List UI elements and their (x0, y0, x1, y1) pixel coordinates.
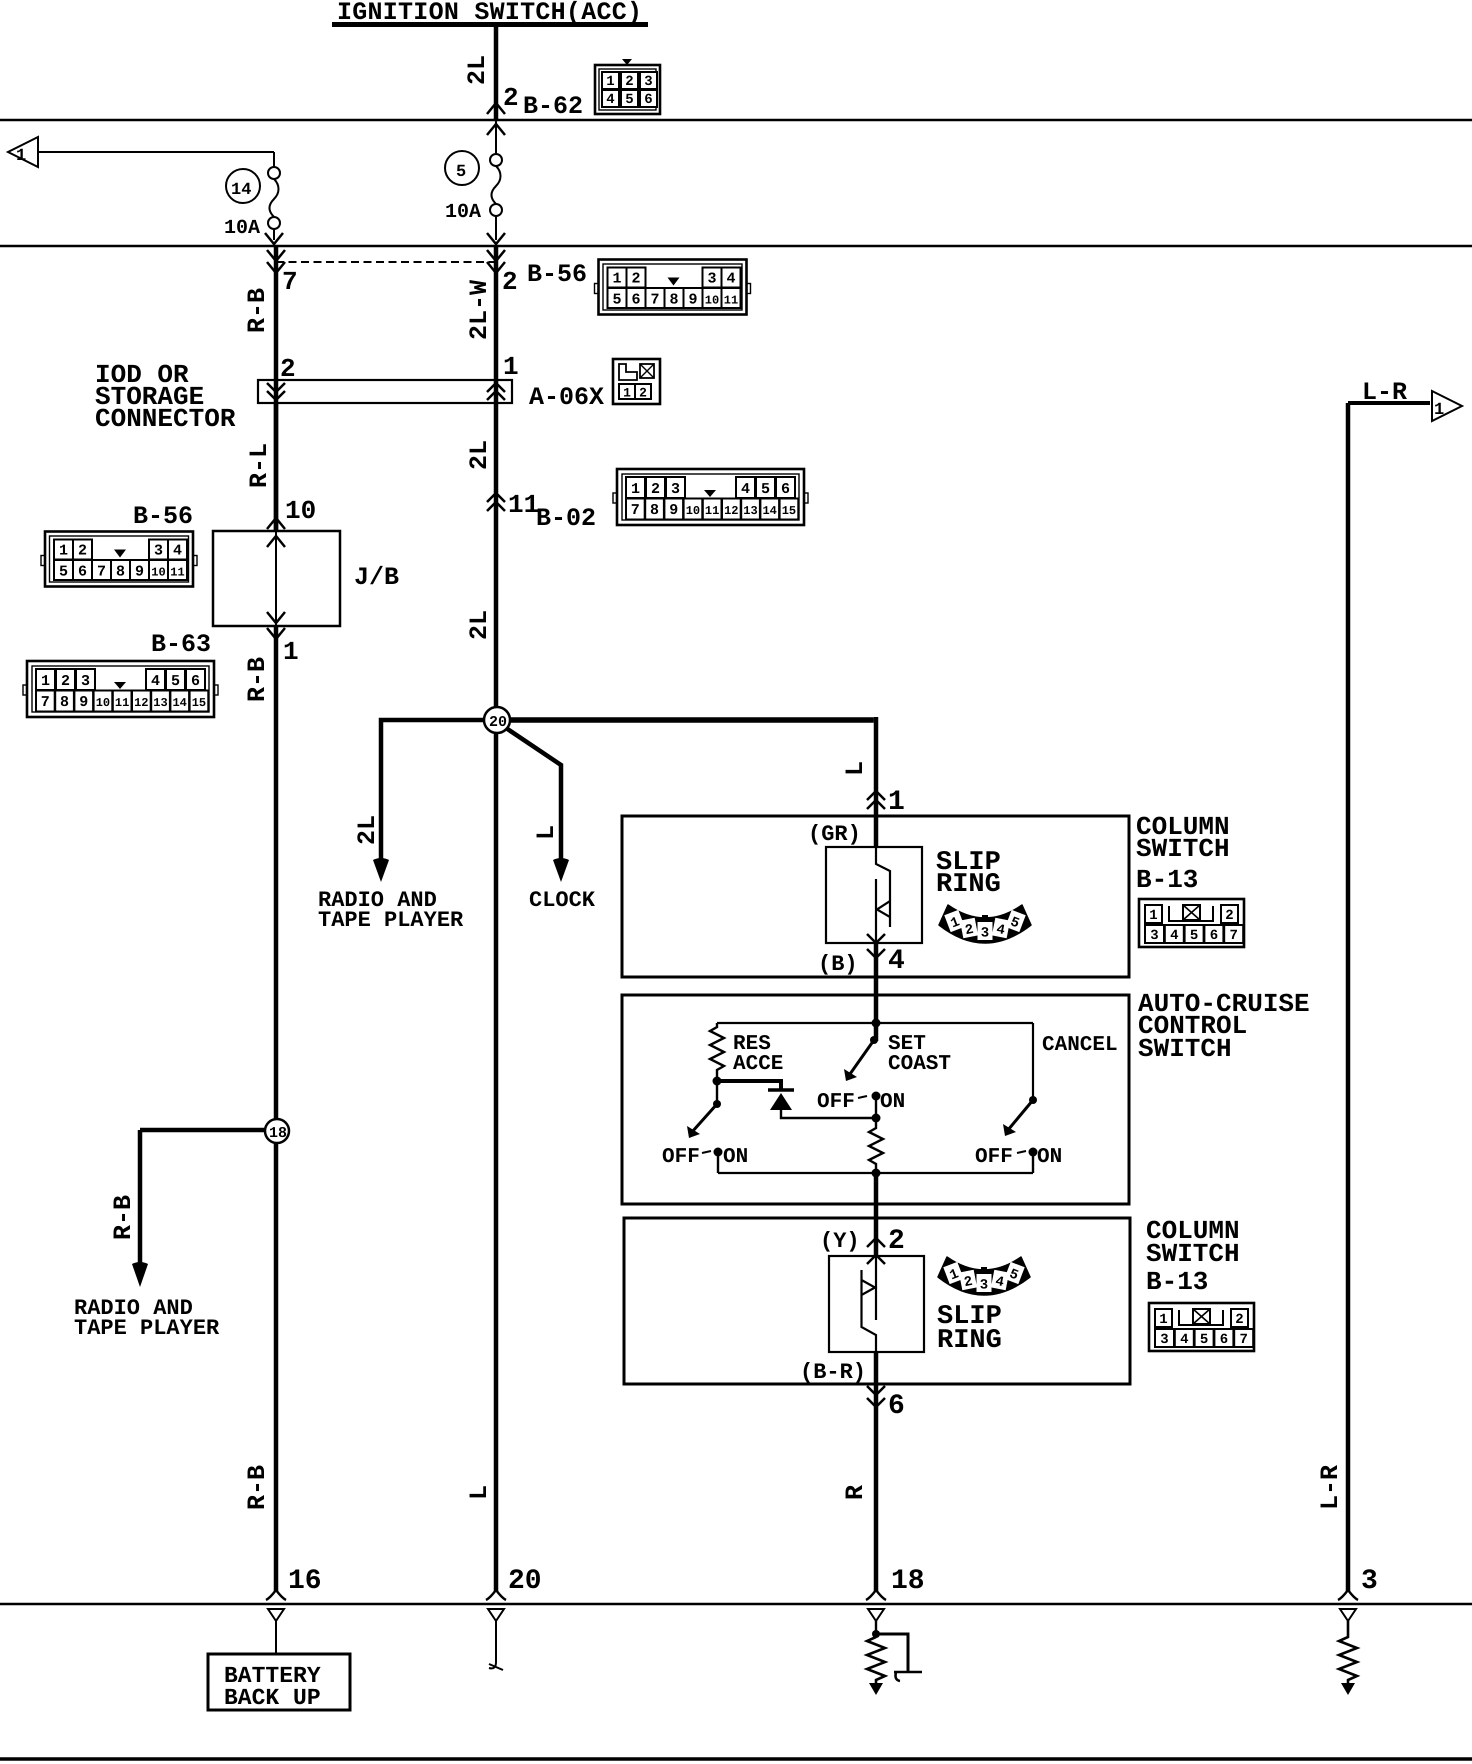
arrow double chevron down inside IOD left (267, 383, 285, 400)
svg-text:(B): (B) (818, 952, 858, 977)
svg-text:OFF: OFF (817, 1091, 855, 1114)
svg-text:6: 6 (888, 1391, 905, 1422)
svg-text:1: 1 (16, 147, 26, 166)
wire center ON to mid junction (875, 1096, 877, 1118)
svg-text:TAPE PLAYER: TAPE PLAYER (74, 1316, 220, 1341)
junction circle 18 (265, 1119, 289, 1143)
arrow solid to clock (553, 858, 569, 882)
svg-text:ACCE: ACCE (733, 1053, 783, 1076)
auto-cruise control switch box (622, 995, 1129, 1204)
rail top horizontal bus line 1 (0, 119, 1472, 122)
crow foot terminal far right bus (1338, 1590, 1358, 1600)
svg-text:R-B: R-B (243, 1465, 272, 1510)
svg-text:ON: ON (880, 1091, 905, 1114)
switch RES arm (713, 1100, 721, 1108)
connector icon B-13 upper (1139, 899, 1244, 947)
junction block J/B box (213, 531, 340, 626)
wire right bus vertical down (874, 717, 879, 1591)
junction circle 20 (484, 707, 510, 733)
wire horizontal from junction 20 to right bus (497, 717, 874, 723)
battery back up box (208, 1654, 350, 1710)
switch CANCEL arm blade (1008, 1100, 1033, 1130)
arrow double chevron down below lower box (867, 1386, 885, 1407)
arrow solid to radio and tape player (373, 858, 389, 882)
svg-text:4: 4 (606, 92, 614, 108)
arrow chevron down into line2 center (487, 233, 505, 244)
svg-text:1: 1 (1434, 401, 1444, 420)
svg-text:2: 2 (503, 83, 519, 113)
arrow double chevron down at slip ring bottom (867, 934, 885, 958)
wire through J/B thin (275, 531, 277, 626)
arrow chevron up above J/B (267, 518, 285, 529)
wire stub down to radio left bottom (138, 1130, 143, 1279)
svg-text:OFF: OFF (662, 1146, 700, 1169)
svg-text:11: 11 (508, 490, 539, 520)
svg-text:(GR): (GR) (808, 822, 861, 847)
svg-text:16: 16 (288, 1566, 322, 1597)
arrow solid to radio and tape player bottom (132, 1262, 148, 1287)
svg-text:14: 14 (231, 181, 251, 200)
svg-text:R-B: R-B (243, 657, 272, 702)
arrow chevron down below J/B bottom (267, 628, 285, 639)
crow foot terminal left bus (266, 1590, 286, 1600)
connector icon slip ring fan lower (938, 1257, 1030, 1295)
node ON contact left (714, 1148, 723, 1157)
resistor center (869, 1118, 883, 1173)
svg-text:3: 3 (1361, 1566, 1378, 1597)
connector icon B-63 (23, 661, 218, 717)
slip ring upper inner box (826, 847, 922, 943)
switch SET/COAST arm (870, 1036, 878, 1044)
svg-text:R-B: R-B (243, 288, 272, 333)
resistor far right bus bottom (1339, 1621, 1357, 1685)
svg-text:2: 2 (639, 386, 647, 401)
svg-text:4: 4 (888, 946, 905, 977)
svg-text:1: 1 (283, 637, 299, 667)
svg-text:ON: ON (1037, 1146, 1062, 1169)
female terminal triangle right (868, 1609, 884, 1621)
svg-text:COAST: COAST (888, 1053, 951, 1076)
svg-text:2L: 2L (463, 55, 492, 85)
wire diagonal stub to clock (503, 726, 561, 872)
arrow chevron up above line1 (487, 103, 505, 114)
svg-text:RING: RING (937, 1326, 1002, 1356)
female terminal triangle left (268, 1609, 284, 1621)
arrow double chevron down below line2 left (267, 250, 285, 273)
IOD or storage connector rectangle (258, 380, 512, 403)
female terminal triangle far right (1340, 1609, 1356, 1621)
svg-text:5: 5 (625, 92, 633, 108)
wire to RES switch pivot (716, 1081, 718, 1104)
connector icon slip ring fan upper (939, 905, 1031, 943)
svg-text:10: 10 (285, 496, 316, 526)
arrow chevron up below J/B top (267, 536, 285, 547)
svg-text:2L: 2L (353, 815, 382, 845)
wire hook tick center terminal (489, 1664, 503, 1670)
resistor RES/ACCE (710, 1023, 724, 1081)
arrow double chevron up crossing slip box top (867, 1238, 885, 1264)
wire left bus R-B vertical from line2 down (274, 246, 279, 531)
fuse F5 element (490, 120, 502, 240)
svg-text:1: 1 (606, 74, 614, 90)
switch RES arm arrowhead (687, 1126, 700, 1138)
connector icon B-56 top (595, 260, 751, 315)
arrow double chevron down below line2 center (487, 250, 505, 273)
svg-text:18: 18 (269, 1125, 287, 1142)
wire center bus L from junction down to bottom (494, 733, 499, 1591)
svg-text:SWITCH: SWITCH (1138, 1034, 1232, 1064)
diode (cathode bar and triangle) (768, 1088, 794, 1092)
connector icon B-13 lower (1149, 1303, 1254, 1351)
wire stub to radio left (381, 720, 497, 872)
svg-text:B-56: B-56 (133, 502, 193, 531)
svg-text:2L-W: 2L-W (465, 280, 494, 340)
dash between OFF and ON left (702, 1151, 711, 1153)
title underline (332, 22, 648, 27)
svg-text:18: 18 (891, 1566, 925, 1597)
arrow solid down far right bus (1341, 1683, 1355, 1695)
slip ring lower inner box (829, 1256, 924, 1352)
arrow chevron down into line2 left (265, 233, 283, 244)
column switch B-13 lower box (624, 1218, 1130, 1384)
fuse 14 circle label (226, 169, 260, 203)
arrow double chevron up at pin 11 (487, 493, 505, 511)
resistor right bus bottom (867, 1637, 885, 1685)
svg-text:RING: RING (936, 870, 1001, 900)
svg-text:B-13: B-13 (1136, 865, 1198, 895)
junction dot left (713, 1077, 722, 1086)
arrow solid down right bus (869, 1683, 883, 1695)
wire left bus R-B from J/B to bottom (274, 626, 279, 1591)
wire and junction to ground branch (875, 1621, 877, 1637)
svg-text:7: 7 (282, 267, 298, 297)
svg-text:B-63: B-63 (151, 630, 211, 659)
svg-text:ON: ON (723, 1146, 748, 1169)
dash between OFF and ON right (1017, 1151, 1026, 1153)
slip ring lower symbol (862, 1256, 877, 1352)
svg-text:10A: 10A (224, 217, 260, 240)
junction dot bottom center (872, 1169, 881, 1178)
auto-cruise inner top rail (717, 1022, 1033, 1024)
svg-text:B-56: B-56 (527, 260, 587, 289)
svg-text:B-02: B-02 (536, 504, 596, 533)
connector icon B-02 (613, 469, 808, 525)
node junction to ground branch (872, 1630, 880, 1638)
connector icon A-06X (613, 359, 660, 404)
junction dot center mid (872, 1114, 881, 1123)
svg-text:2: 2 (625, 74, 633, 90)
crow foot terminal right bus (866, 1590, 886, 1600)
wire far right bus L-R vertical (1346, 403, 1351, 1591)
svg-text:CANCEL: CANCEL (1042, 1034, 1118, 1057)
svg-text:J/B: J/B (354, 563, 399, 592)
diode D1 anode triangle (770, 1093, 792, 1110)
svg-text:SWITCH: SWITCH (1136, 834, 1230, 864)
svg-text:CONNECTOR: CONNECTOR (95, 404, 236, 434)
node ON contact center (872, 1092, 881, 1101)
wire 2L stub from ignition switch down to line 1 (494, 27, 499, 120)
ground symbol (894, 1672, 922, 1681)
svg-text:OFF: OFF (975, 1146, 1013, 1169)
svg-text:L-R: L-R (1316, 1465, 1345, 1510)
crow foot terminal center bus (486, 1590, 506, 1600)
svg-text:2: 2 (502, 267, 518, 297)
switch SET arm arrowhead (844, 1069, 857, 1081)
wire to battery back up (275, 1621, 277, 1654)
connector icon B-62 (595, 59, 660, 114)
svg-text:CLOCK: CLOCK (529, 888, 596, 913)
svg-text:B-13: B-13 (1146, 1267, 1208, 1297)
svg-text:2: 2 (888, 1226, 905, 1257)
svg-text:1: 1 (888, 787, 905, 818)
svg-text:R-L: R-L (245, 443, 274, 488)
wire center bus 2L-W vertical from line2 down (494, 246, 499, 720)
svg-text:6: 6 (644, 92, 652, 108)
arrow chevron up below line1 (487, 124, 505, 135)
rail horizontal bus line 2 (0, 245, 1472, 248)
auto-cruise inner bottom rail (718, 1172, 1033, 1174)
svg-text:2L: 2L (465, 440, 494, 470)
svg-text:(Y): (Y) (820, 1229, 860, 1254)
svg-text:1: 1 (623, 386, 631, 401)
connector icon B-56 left (41, 532, 197, 587)
arrow chevron down above J/B bottom (267, 612, 285, 623)
node A left arrow to sheet 1 (8, 137, 274, 167)
wire stub with hook center (489, 1621, 496, 1668)
wire ON right to bottom rail (1032, 1152, 1034, 1173)
svg-text:20: 20 (508, 1566, 542, 1597)
female terminal triangle center (488, 1609, 504, 1621)
switch SET arm blade (850, 1040, 874, 1074)
svg-text:L: L (841, 761, 870, 776)
wire thick to diode (717, 1081, 781, 1089)
arrow double chevron up at pin 1 column switch (867, 791, 885, 809)
ground branch wire (876, 1634, 908, 1672)
svg-text:20: 20 (489, 714, 507, 731)
node L-R right arrow to sheet 1 (1348, 391, 1462, 421)
slip ring upper symbol (876, 847, 890, 943)
svg-text:R-B: R-B (109, 1195, 138, 1240)
wire dashed tie line between buses (276, 261, 496, 263)
dash between OFF and ON center (858, 1096, 867, 1098)
switch CANCEL arm (1032, 1023, 1034, 1100)
svg-text:R: R (841, 1485, 870, 1500)
svg-text:L: L (532, 825, 561, 840)
svg-text:SWITCH: SWITCH (1146, 1239, 1240, 1269)
svg-text:2L: 2L (465, 610, 494, 640)
wire left bus below IOD (274, 403, 279, 531)
arrow double chevron up inside IOD right (487, 383, 505, 400)
wire ON left to bottom rail (717, 1152, 719, 1173)
svg-text:10A: 10A (445, 201, 481, 224)
svg-text:3: 3 (644, 74, 652, 90)
wire horizontal to junction 18 (140, 1128, 276, 1133)
fuse F14 element (268, 167, 280, 240)
switch RES arm blade (692, 1104, 717, 1132)
column switch B-13 upper box (622, 816, 1129, 977)
svg-text:(B-R): (B-R) (800, 1360, 866, 1385)
svg-text:L: L (465, 1485, 494, 1500)
svg-text:TAPE PLAYER: TAPE PLAYER (318, 908, 464, 933)
fuse 5 circle label (445, 151, 479, 185)
wire diode to center (781, 1110, 876, 1118)
svg-text:B-62: B-62 (523, 92, 583, 121)
svg-text:A-06X: A-06X (529, 383, 604, 412)
node ON contact right (1029, 1148, 1038, 1157)
junction dot top center (872, 1019, 881, 1028)
rail bottom horizontal bus line 3 (0, 1603, 1472, 1606)
node CANCEL switch pivot (1029, 1096, 1037, 1104)
svg-text:5: 5 (456, 163, 466, 182)
svg-text:L-R: L-R (1362, 378, 1407, 407)
page bottom border line (0, 1757, 1472, 1761)
svg-text:1: 1 (503, 352, 519, 382)
switch CANCEL arm arrowhead (1003, 1124, 1016, 1136)
svg-text:BACK UP: BACK UP (224, 1685, 321, 1711)
